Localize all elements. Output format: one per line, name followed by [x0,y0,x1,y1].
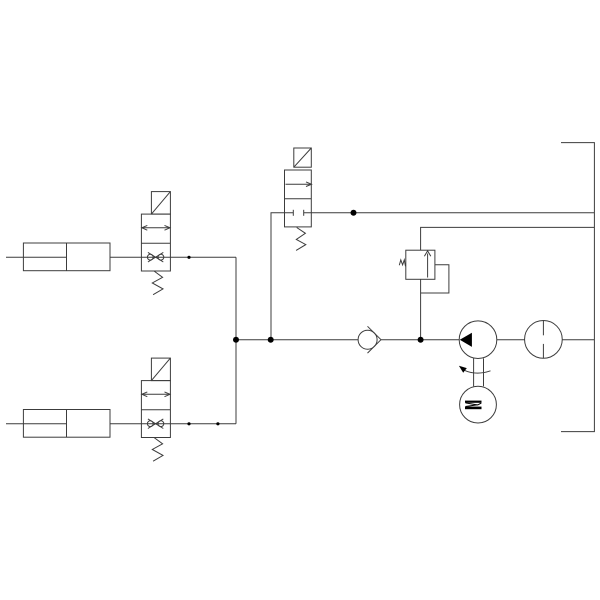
solenoid actuator of V2 [151,358,170,381]
wire: bottom cylinder port to collector [110,423,236,425]
wire: top cylinder port to collector [110,256,236,258]
valve U3 body [285,170,312,227]
pilot return loop of RV1 [421,265,449,293]
junction node on V1 output [187,256,190,259]
junction node on U3 outlet line [351,210,357,216]
rotation direction arrow [459,366,491,373]
wire: main pressure line pump to gauge to tank bus [381,339,594,341]
flow arrow in U3 position 1 [286,183,312,185]
check balls in V1 position 2 [147,254,153,260]
junction node on V2 output (left) [187,422,190,425]
wire: valve U3 inlet drop [271,213,293,340]
gauge G1 [525,321,563,359]
spring of RV1 [399,260,405,266]
solenoid actuator of V1 [151,192,170,215]
spring of V1 [152,271,163,295]
wire: tank bus bracket [561,143,594,432]
pump P1 [459,321,497,359]
valve V2 [141,358,170,461]
wire: valve U3 outlet to tank bus [304,212,595,214]
wire: relief valve lower drop [420,279,422,339]
blocked port bars in U3 position 2 [292,210,294,216]
junction node on V2 output (right) [216,422,219,425]
junction node relief valve to main line [418,337,424,343]
wire: collector vertical [235,257,237,424]
junction node U3 drop to main line [268,337,274,343]
solenoid actuator of U3 [294,148,312,167]
valve V1 body [141,214,170,271]
valve U3 (2/2 solenoid valve) [285,148,312,250]
valve V1 [141,192,170,295]
motor M1 [460,386,497,423]
double arrow in V2 position 1 [142,393,170,395]
junction node collector to main line [233,337,239,343]
cylinder C2 [6,410,110,438]
spring of U3 [296,228,306,251]
valve V2 body [141,381,170,438]
check balls in V2 position 2 [147,421,153,427]
check valve CV1 [358,326,381,353]
drive shaft pump to motor [474,358,484,386]
wire: main pressure line left of check valve [236,339,358,341]
spring of V2 [152,438,163,462]
double arrow in V1 position 1 [142,227,170,229]
relief valve RV1 [399,250,449,293]
cylinder C1 [6,243,110,271]
wire: relief valve top line to tank bus [421,227,595,250]
